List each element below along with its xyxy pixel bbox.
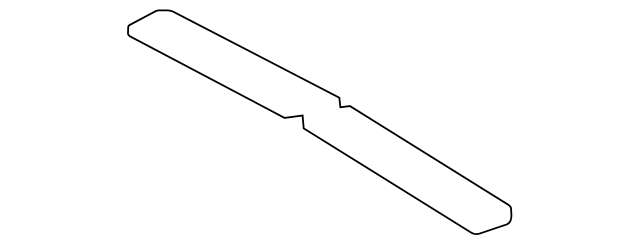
part outline: elongated molding strip drawn in perspective — [128, 10, 511, 234]
